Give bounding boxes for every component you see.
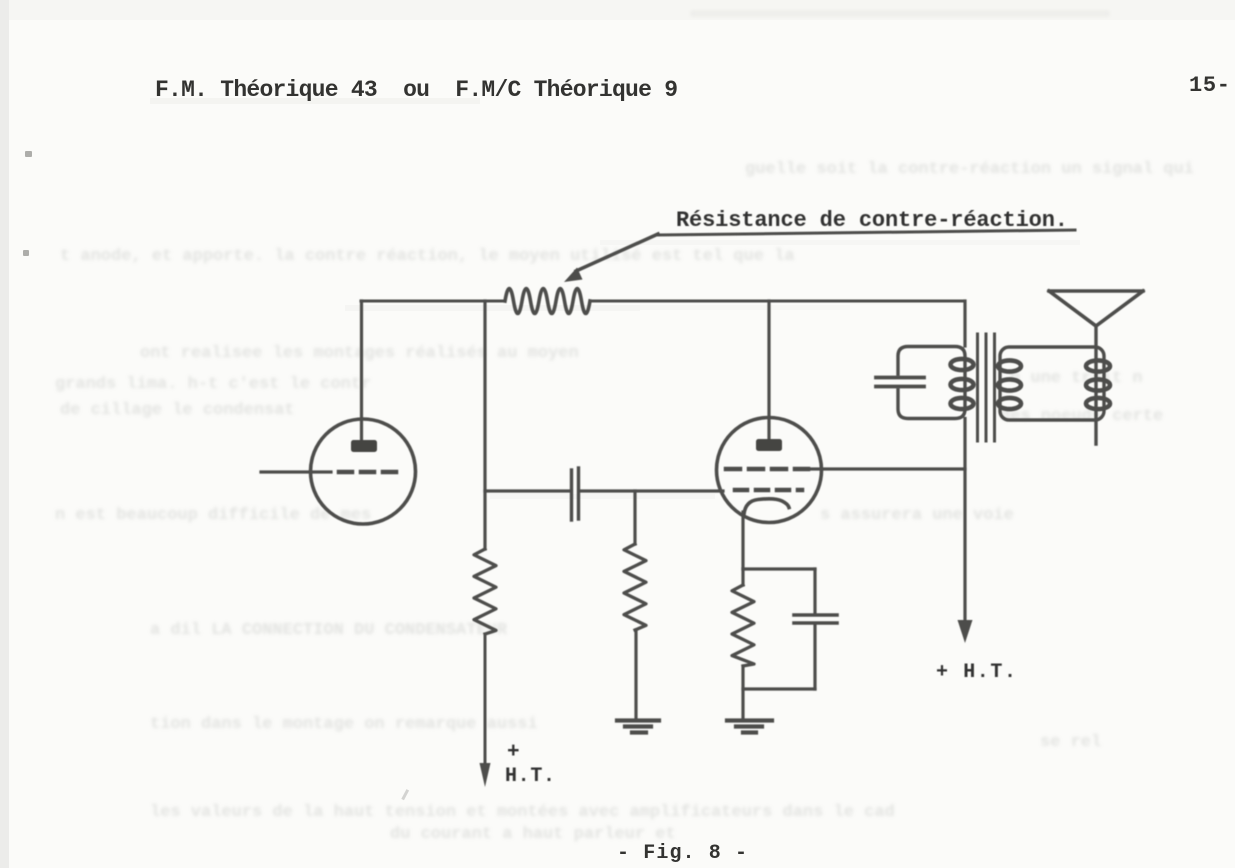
tube V1 grid (dashed): [339, 470, 404, 475]
capacitor C3 (tank) bottom plate: [876, 385, 924, 389]
wire: cathode RC bottom link: [743, 687, 815, 690]
ground (cathode): [727, 721, 772, 733]
tube V2 anode plate: [756, 439, 782, 451]
svg-text:s assurera une voie: s assurera une voie: [820, 506, 1014, 525]
resistor R3 (cathode bias): [732, 585, 754, 666]
label + H.T. left: [505, 741, 555, 788]
wire: bypass cap right branch upper: [813, 569, 816, 612]
svg-text:grands lima. h-t c'est le con: grands lima. h-t c'est le contr: [55, 375, 371, 394]
resistor R2 (grid leak, vertical): [624, 544, 646, 630]
wire: capacitor to V2 grid: [580, 489, 723, 492]
leader arrowhead: [564, 268, 583, 283]
svg-text:se rel: se rel: [1040, 733, 1101, 752]
transformer secondary tank loop: [1000, 347, 1104, 420]
svg-text:- Fig. 8 -: - Fig. 8 -: [617, 842, 747, 865]
wire: R2 to ground: [634, 630, 637, 719]
capacitor C1 (coupling) left plate: [570, 470, 573, 520]
svg-text:guelle soit la contre-réaction: guelle soit la contre-réaction un signal…: [745, 160, 1194, 179]
svg-text:H.T.: H.T.: [505, 765, 555, 788]
svg-text:t anode, et apporte. la contr: t anode, et apporte. la contre réaction,…: [60, 247, 795, 266]
antenna coupling loops (right): [1086, 360, 1110, 409]
svg-text:des noeuds certe: des noeuds certe: [1000, 407, 1163, 426]
wire: top bus left segment: [361, 300, 505, 303]
svg-text:F.M. Théorique 43 ou F.M/C T: F.M. Théorique 43 ou F.M/C Théorique 9: [155, 77, 678, 103]
wire: V2 plate line to HT bus: [810, 467, 965, 470]
svg-text:les valeurs de la haut tensio: les valeurs de la haut tension et montée…: [150, 803, 895, 822]
tube V1 envelope: [311, 419, 416, 524]
svg-text:de cillage le condensat: de cillage le condensat: [60, 401, 295, 420]
resistor R1 (plate load, vertical): [474, 549, 496, 634]
wire: cathode lead down: [741, 512, 744, 569]
svg-text:+ H.T.: + H.T.: [936, 661, 1016, 684]
wire: bypass cap right branch lower: [813, 626, 816, 689]
annotation label: Résistance de contre-réaction: [676, 208, 1068, 233]
wire: R3 to ground: [741, 666, 744, 719]
tube V2 grid 1 (dashed): [726, 467, 808, 472]
svg-text:ont realisee les montages ré: ont realisee les montages réalisés au mo…: [140, 344, 579, 363]
resistor: contre-réaction (feedback), wavy: [505, 289, 590, 314]
transformer primary winding loops: [951, 359, 974, 409]
antenna lead: [1094, 326, 1097, 444]
svg-text:tion dans le montage on re: tion dans le montage on remarque aussi: [150, 715, 538, 734]
wire: V1 anode stem (from top bus down): [360, 301, 363, 442]
transformer secondary winding loops (left): [998, 360, 1021, 409]
capacitor C2 (cathode bypass) bottom plate: [794, 621, 837, 625]
transformer core laminations: [978, 334, 995, 441]
wire: HT bus below transformer: [963, 419, 966, 629]
leader line to feedback resistor: [576, 234, 658, 271]
scanner shadow streaks: [150, 98, 1080, 499]
antenna symbol: [1049, 291, 1143, 326]
svg-text:h une trait n: h une trait n: [1010, 369, 1143, 388]
svg-text:15-: 15-: [1189, 73, 1230, 98]
arrowhead +H.T. right: [958, 620, 973, 643]
arrowhead +H.T. left: [480, 763, 491, 787]
label + H.T. right: [936, 661, 1016, 684]
wire: cathode RC top link: [743, 567, 815, 570]
tube V2 envelope: [717, 418, 822, 523]
wire: junction to coupling capacitor: [485, 489, 569, 492]
wire: R3 upper stub: [741, 569, 744, 585]
tube V2 grid 2 (dashed): [735, 488, 802, 493]
wire: V2 anode stem: [767, 301, 770, 440]
tube V2 cathode arc: [744, 499, 789, 514]
wire: screen/plate branch vertical at x=485: [483, 301, 486, 549]
stray pencil mark left margin: [23, 151, 409, 800]
wire: V1 grid lead: [261, 470, 331, 473]
label underline: [657, 230, 1075, 235]
bleed-through ghost text (scan artifacts): [55, 160, 1194, 844]
transformer primary tank loop: [898, 347, 965, 419]
capacitor C2 (cathode bypass) top plate: [794, 613, 837, 617]
capacitor C3 (tank) top plate: [876, 376, 924, 380]
svg-text:a dil LA CONNECTION DU CONDENS: a dil LA CONNECTION DU CONDENSATEUR: [150, 621, 508, 640]
tube V1 anode plate: [351, 440, 377, 452]
wire: top bus right segment: [590, 300, 965, 303]
svg-text:+: +: [507, 741, 520, 764]
wire: HT bus down to transformer: [963, 301, 966, 346]
capacitor C1 (coupling) right plate: [577, 468, 580, 519]
wire: R1 down to +H.T. arrow: [484, 634, 487, 766]
svg-text:Résistance de contre-réaction.: Résistance de contre-réaction.: [676, 208, 1068, 233]
ground (R2): [617, 721, 659, 733]
wire: grid-leak branch vertical: [633, 491, 636, 544]
